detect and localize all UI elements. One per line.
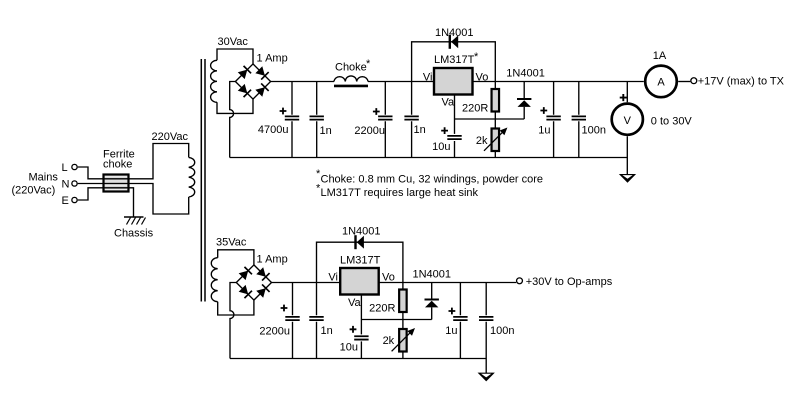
- svg-text:220R: 220R: [369, 302, 395, 314]
- svg-text:1 Amp: 1 Amp: [257, 53, 288, 65]
- diode 1N4001 vertical top section: [523, 82, 525, 120]
- bottom rail bottom section: [230, 358, 486, 360]
- secondary 1 winding 30Vac: [211, 60, 217, 102]
- output terminal bottom: [517, 278, 523, 284]
- wire secondary2 top to bridge (fuse): [218, 250, 254, 265]
- bottom rail top section: [230, 157, 628, 159]
- svg-text:1u: 1u: [538, 125, 550, 137]
- bridge1 diode top-left: [237, 66, 251, 80]
- ammeter M2 circle: [645, 66, 677, 98]
- bridge1 diode bottom-right: [255, 83, 269, 97]
- svg-text:10u: 10u: [340, 342, 358, 354]
- capacitor 1n second wire: [411, 82, 413, 158]
- svg-text:+17V (max) to TX: +17V (max) to TX: [698, 76, 785, 88]
- svg-text:10u: 10u: [432, 141, 450, 153]
- capacitor 10u bottom lower wire: [360, 341, 362, 358]
- capacitor 100n bottom wire: [485, 283, 487, 359]
- svg-text:1n: 1n: [320, 125, 332, 137]
- svg-text:2k: 2k: [383, 335, 395, 347]
- capacitor 1n first wire: [316, 82, 318, 158]
- wire ammeter to output terminal: [678, 81, 690, 83]
- svg-text:220Vac: 220Vac: [152, 131, 189, 143]
- bridge2 diode bottom-left: [238, 285, 252, 299]
- wire bridge2 left vertex to bottom rail with hop: [230, 283, 236, 359]
- svg-text:30Vac: 30Vac: [218, 36, 249, 48]
- svg-text:4700u: 4700u: [258, 124, 289, 136]
- svg-text:35Vac: 35Vac: [216, 237, 247, 249]
- plus voltmeter: [620, 94, 627, 101]
- svg-text:V: V: [624, 115, 632, 127]
- capacitor 100n top plates: [572, 116, 586, 119]
- wire U2 Va to adjust node: [360, 295, 362, 335]
- ground symbol top section: [619, 174, 636, 183]
- wire secondary1 top to bridge (fuse): [217, 49, 253, 64]
- plus 10u bottom: [350, 326, 357, 333]
- capacitor 10u top plates: [447, 136, 461, 139]
- resistor 220R top body: [492, 89, 500, 112]
- svg-text:1 Amp: 1 Amp: [257, 253, 288, 265]
- bridge rectifier B1 diamond: [235, 64, 270, 99]
- capacitor 1n first plates: [310, 116, 324, 119]
- bridge1 diode top-right: [255, 66, 269, 80]
- capacitor 2200u bottom plates: [285, 317, 299, 320]
- capacitor 1u top plates: [546, 116, 560, 119]
- wire choke to LM317 Vi: [368, 81, 434, 83]
- svg-text:Vi: Vi: [328, 272, 338, 284]
- plus 4700u: [280, 108, 287, 115]
- svg-text:Choke: Choke: [335, 62, 367, 74]
- ground symbol bottom section: [478, 373, 495, 382]
- output terminal top: [691, 78, 697, 84]
- wire rail U2 Vo to terminal: [379, 282, 517, 284]
- terminal E circle: [72, 197, 77, 202]
- wire L to primary top: [78, 144, 189, 179]
- potentiometer 2k top arrow: [484, 127, 507, 150]
- wire U1 Va to adjust node: [454, 95, 456, 134]
- svg-text:choke: choke: [103, 159, 132, 171]
- svg-text:1N4001: 1N4001: [435, 27, 474, 39]
- capacitor 1u bottom plates: [453, 317, 467, 320]
- wire protection loop around LM317 U1: [412, 42, 496, 82]
- svg-text:N: N: [62, 179, 70, 191]
- wire secondary1 bottom to bridge: [217, 99, 253, 113]
- svg-text:1N4001: 1N4001: [413, 269, 452, 281]
- svg-text:1N4001: 1N4001: [342, 226, 381, 238]
- svg-text:E: E: [62, 195, 69, 207]
- wire bridge1 left vertex to bottom rail with hop: [230, 82, 236, 158]
- capacitor 1n third plates: [309, 317, 323, 320]
- chassis ground symbol: [124, 217, 146, 225]
- capacitor 1n second plates: [404, 116, 418, 119]
- plus 2200u bottom: [281, 305, 288, 312]
- secondary 2 winding 35Vac: [211, 258, 217, 302]
- capacitor 1n third wire: [316, 283, 318, 359]
- regulator U1 LM317T body: [434, 68, 473, 95]
- capacitor 2200u top wire: [384, 82, 386, 158]
- transformer primary winding: [189, 157, 195, 197]
- diode 1N4001 over U2: [356, 235, 364, 249]
- svg-text:LM317T requires large heat sin: LM317T requires large heat sink: [321, 187, 479, 199]
- svg-text:+30V to Op-amps: +30V to Op-amps: [526, 276, 613, 288]
- capacitor 100n top wire: [578, 82, 580, 158]
- svg-text:Chassis: Chassis: [114, 228, 154, 240]
- bridge2 diode top-right: [256, 267, 270, 281]
- regulator U2 LM317T body: [340, 268, 379, 295]
- wire adjust node 2 horizontal: [361, 319, 431, 321]
- resistor 220R top wires: [494, 82, 496, 158]
- svg-text:Va: Va: [442, 96, 456, 108]
- voltmeter stub wires: [626, 82, 628, 175]
- svg-text:Va: Va: [348, 297, 362, 309]
- capacitor 2200u bottom wire: [292, 283, 294, 359]
- terminal L circle: [72, 164, 77, 169]
- svg-text:220R: 220R: [462, 103, 488, 115]
- diode 1N4001 vertical bottom section: [431, 283, 433, 320]
- plus 1u top: [540, 107, 547, 114]
- svg-text:1u: 1u: [445, 325, 457, 337]
- svg-text:A: A: [657, 77, 665, 89]
- capacitor 4700u plates: [285, 116, 299, 119]
- plus 1u bottom: [449, 308, 456, 315]
- wire secondary2 bottom to bridge: [218, 300, 254, 315]
- bridge1 diode bottom-left: [237, 84, 251, 98]
- svg-text:1A: 1A: [653, 50, 667, 62]
- wire protection loop around U2: [317, 242, 403, 282]
- wire positive rail bridge2 to U2 Vi: [272, 282, 341, 284]
- plus 10u top: [441, 127, 448, 134]
- capacitor 2200u top plates: [378, 116, 392, 119]
- resistor 220R bottom body: [399, 290, 407, 313]
- plus 2200u top: [373, 108, 380, 115]
- svg-text:1N4001: 1N4001: [506, 68, 545, 80]
- resistor 220R bottom wires: [402, 283, 404, 359]
- svg-text:Choke: 0.8 mm Cu, 32 windings,: Choke: 0.8 mm Cu, 32 windings, powder co…: [321, 174, 544, 186]
- bridge2 diode bottom-right: [256, 284, 270, 298]
- svg-text:Mains: Mains: [29, 172, 59, 184]
- ferrite choke body: [104, 175, 129, 192]
- capacitor 1u top wire: [553, 82, 555, 158]
- potentiometer 2k top body: [492, 129, 500, 152]
- svg-text:Vi: Vi: [423, 71, 433, 83]
- svg-text:LM317T: LM317T: [340, 255, 381, 267]
- svg-text:100n: 100n: [582, 125, 606, 137]
- potentiometer 2k bottom arrow: [392, 328, 415, 351]
- potentiometer 2k bottom body: [399, 329, 407, 352]
- svg-text:100n: 100n: [490, 325, 514, 337]
- capacitor 10u top lower wire: [454, 141, 456, 158]
- wire E to chassis: [78, 188, 134, 217]
- svg-text:2200u: 2200u: [354, 125, 385, 137]
- svg-text:L: L: [62, 162, 68, 174]
- capacitor 1u bottom wire: [459, 283, 461, 359]
- bridge rectifier B2 diamond: [236, 265, 271, 300]
- voltmeter M1 circle: [612, 104, 643, 135]
- diode 1N4001 over U1: [450, 35, 458, 49]
- ground stub bottom section: [485, 359, 487, 374]
- capacitor 10u bottom plates: [354, 336, 368, 339]
- svg-text:1n: 1n: [414, 124, 426, 136]
- capacitor 100n bottom plates: [479, 317, 493, 320]
- wire positive rail bridge1 to choke: [271, 81, 334, 83]
- capacitor 4700u wire: [291, 82, 293, 158]
- svg-text:LM317T: LM317T: [434, 54, 475, 66]
- svg-text:*: *: [474, 51, 479, 63]
- svg-text:*: *: [366, 58, 371, 70]
- svg-text:Vo: Vo: [382, 272, 395, 284]
- terminal N circle: [72, 181, 77, 186]
- wire adjust node horizontal: [455, 118, 525, 120]
- wire rail U1 Vo to ammeter: [473, 81, 644, 83]
- svg-text:2k: 2k: [476, 135, 488, 147]
- choke L1: [334, 76, 368, 86]
- svg-text:0 to 30V: 0 to 30V: [651, 116, 693, 128]
- wire N to primary bottom: [78, 184, 189, 215]
- svg-text:1n: 1n: [321, 325, 333, 337]
- bridge2 diode top-left: [238, 267, 252, 281]
- svg-text:2200u: 2200u: [259, 326, 290, 338]
- transformer core: [201, 59, 205, 302]
- svg-text:(220Vac): (220Vac): [12, 185, 56, 197]
